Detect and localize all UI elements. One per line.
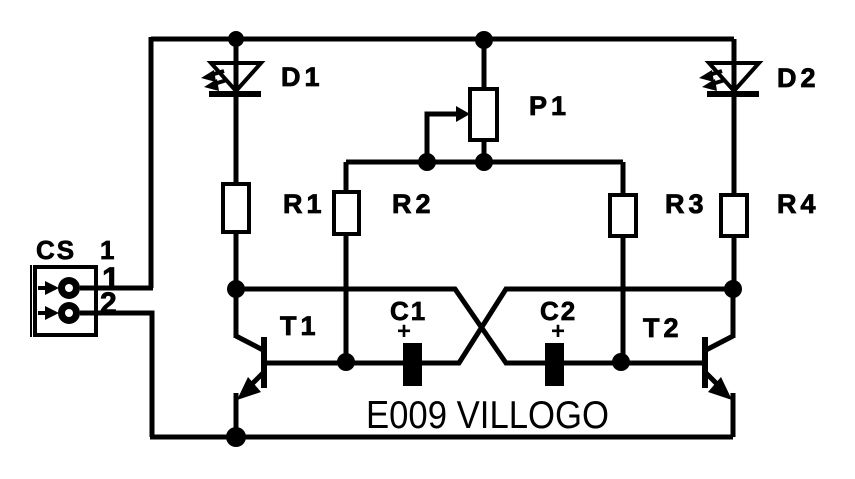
transistor T2 xyxy=(705,288,733,437)
svg-text:T1: T1 xyxy=(280,311,320,341)
wire R3 top to mid rail xyxy=(621,162,626,197)
svg-text:E009 VILLOGO: E009 VILLOGO xyxy=(366,394,609,437)
wire R2 top to mid rail xyxy=(344,162,349,194)
svg-text:D1: D1 xyxy=(281,62,324,92)
LED D2 xyxy=(707,63,759,94)
svg-text:T2: T2 xyxy=(643,313,683,343)
wire D1 R1 column upper xyxy=(234,39,239,186)
wire mid rail P1 xyxy=(346,160,623,165)
svg-text:CS: CS xyxy=(36,235,76,265)
CS1 pin 2 symbol xyxy=(38,302,80,324)
resistor R1 xyxy=(223,184,249,232)
node junction T1 collector xyxy=(227,280,245,298)
capacitor C2 xyxy=(545,343,564,386)
svg-text:2: 2 xyxy=(100,287,117,320)
transistor T1 xyxy=(236,288,264,437)
svg-text:R1: R1 xyxy=(283,189,326,219)
wire R3 bottom to T2 base line xyxy=(621,234,626,361)
T2 emitter arrowhead xyxy=(708,377,732,400)
connector CS1 box xyxy=(31,265,96,337)
node junction mid rail wiper xyxy=(418,153,436,171)
T1 emitter arrowhead xyxy=(237,377,261,400)
D1 arrow tips xyxy=(201,70,219,91)
wire R2 bottom to T1 base line xyxy=(344,232,349,362)
capacitor C1 xyxy=(403,343,422,386)
svg-text:C2: C2 xyxy=(540,296,577,326)
wire P1 bottom to mid rail xyxy=(482,138,487,162)
wire bottom rail xyxy=(150,435,733,440)
resistor R4 xyxy=(721,195,747,236)
CS1 pin 1 symbol xyxy=(38,277,80,299)
wire top +V rail xyxy=(151,37,734,42)
D2 arrow tips xyxy=(699,70,717,91)
resistor R3 xyxy=(610,195,636,236)
node junction bottom rail T1 emitter xyxy=(226,427,246,447)
wire R1 to T1 collector node xyxy=(234,232,239,290)
wire CS1 pin1 to left rail xyxy=(80,286,153,291)
wire P1 wiper to mid rail xyxy=(427,114,458,162)
svg-text:R4: R4 xyxy=(777,189,820,219)
node junction T2 base R3 xyxy=(612,353,630,371)
wire CS1 pin2 down leg xyxy=(80,313,152,437)
LED D1 xyxy=(209,63,261,94)
wire R4 to T2 collector node xyxy=(732,234,737,290)
potentiometer P1 xyxy=(470,89,497,140)
wire T2 collector to C1 to T1 base xyxy=(266,289,733,363)
wire P1 top to rail xyxy=(482,39,487,91)
P1 wiper arrowhead xyxy=(456,106,470,122)
node junction top rail P1 xyxy=(475,31,493,49)
node junction top rail D1 xyxy=(228,31,244,47)
svg-text:D2: D2 xyxy=(777,63,820,93)
wire T1 collector to C2 to T2 base xyxy=(236,289,703,363)
svg-text:R2: R2 xyxy=(392,189,435,219)
svg-text:C1: C1 xyxy=(390,296,427,326)
node junction T1 base R2 xyxy=(337,353,355,371)
resistor R2 xyxy=(334,192,359,234)
svg-text:R3: R3 xyxy=(665,189,708,219)
node junction mid rail P1 bottom xyxy=(475,153,493,171)
node junction T2 collector xyxy=(724,280,742,298)
wire D2 R4 column upper xyxy=(732,39,737,197)
wire left rail xyxy=(149,37,154,288)
svg-text:P1: P1 xyxy=(529,91,570,121)
